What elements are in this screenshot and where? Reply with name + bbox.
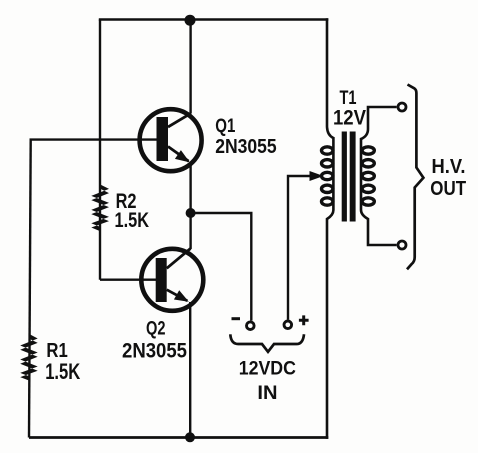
svg-text:Q1: Q1 [215,116,235,137]
wire Q1 base [30,138,159,140]
transformer T1 secondary spine and leads [361,107,397,245]
svg-text:2N3055: 2N3055 [215,136,277,158]
transistor Q2 [141,249,203,311]
terminal HV out top [398,103,406,111]
svg-text:IN: IN [257,382,277,404]
transistor Q1 [140,109,202,171]
node A junction [186,208,196,218]
wire Q2 emitter down [189,302,191,438]
wire Q2 collector from node A [189,213,191,249]
wire plus terminal to transformer center tap [288,176,312,320]
label plus sign [299,315,309,325]
svg-text:2N3055: 2N3055 [122,340,187,363]
wire node A to minus terminal [191,213,252,321]
wire Q1 emitter to node A [189,163,191,214]
terminal 12VDC minus [247,322,255,330]
svg-text:12VDC: 12VDC [239,358,296,380]
wire Q2 base [100,279,158,281]
svg-text:1.5K: 1.5K [115,209,150,232]
wire left branch vertical through R1 [29,140,31,438]
svg-text:1.5K: 1.5K [45,359,80,384]
terminal 12VDC plus [284,321,292,329]
brace 12VDC in [230,334,304,352]
node top junction [185,15,196,26]
svg-text:OUT: OUT [430,178,466,200]
wire center bus Q1 collector [189,20,191,114]
transformer T1 primary coil loops [322,147,333,205]
resistor R2 [91,184,109,231]
wire R2 branch vertical [99,20,101,280]
wire bottom rail [29,436,328,439]
node bottom junction [185,432,195,442]
transformer T1 primary feed and spine [327,18,333,439]
resistor R1 [20,334,38,381]
transformer center tap arrow [310,171,324,181]
terminal HV out bottom [398,241,406,249]
label minus sign [232,317,241,320]
transformer T1 secondary coil loops [362,147,374,205]
svg-text:12V: 12V [333,107,366,130]
svg-text:Q2: Q2 [146,318,166,339]
wire top rail [99,18,328,21]
transformer T1 core [342,132,347,222]
svg-text:H.V.: H.V. [432,156,466,178]
brace HV out [407,85,423,270]
